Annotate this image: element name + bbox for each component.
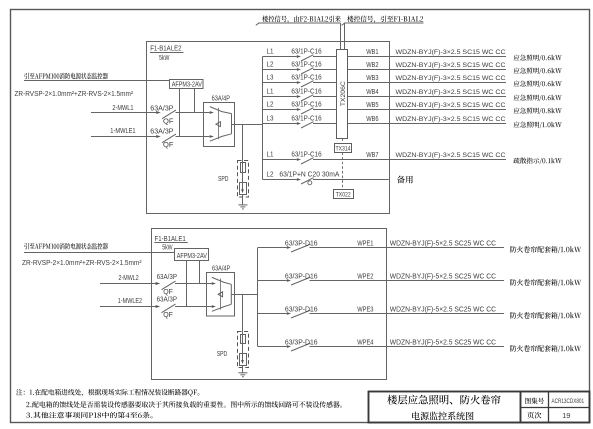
surge arrester (bottom SPD) [240,354,247,366]
wire branch row 2 to terminal [313,69,337,71]
leader underline signal-from [259,22,341,24]
ATS actuator triangle [216,122,221,127]
wire branch row 4 to terminal [313,96,337,98]
label load evacuation indication [514,158,562,165]
svg-text:63/1P-C16: 63/1P-C16 [291,46,321,55]
ATS actuator link [217,108,219,139]
svg-text:WB2: WB2 [366,62,378,69]
svg-text:AFPM3-2AV: AFPM3-2AV [172,82,202,89]
label load fire shutter box 1 [510,246,581,253]
wire monitor link (bottom) [24,252,175,254]
wire incoming 2-MWL1 [91,112,156,114]
wire circuit WB1 [347,56,506,58]
breaker 63/1P-C16 row 4 [301,95,314,101]
breaker 63/1P-C16 row 7 [301,158,314,164]
breaker 63/1P-C16 row 3 [301,81,314,87]
svg-text:WDZN-BYJ(F)-3×2.5 SC15 WC CC: WDZN-BYJ(F)-3×2.5 SC15 WC CC [396,49,506,56]
label load 应急照明/0.6kW [514,55,562,62]
svg-text:AFPM3-2AV: AFPM3-2AV [177,253,207,260]
ATS2 input stub 2 [206,306,212,308]
svg-text:1-MWLE2: 1-MWLE2 [118,296,142,305]
svg-text:63A/4P: 63A/4P [212,94,230,103]
svg-text:WDZN-BYJ(F)-3×2.5 SC15 WC CC: WDZN-BYJ(F)-3×2.5 SC15 WC CC [396,152,506,159]
breaker 63/1P-C16 row 2 [301,68,314,74]
label load fire shutter box 2 [510,279,581,286]
wire monitor link (top) [24,80,170,82]
label load 应急照明/0.6kW [514,81,562,88]
breaker QF 1-MWLE1 63A/3P [162,134,176,143]
label load 应急照明/0.6kW [514,68,562,75]
svg-text:L2: L2 [267,59,274,68]
label to AFPM100 monitor (bottom) [24,243,108,250]
wire AFPM tap to 1-MWLE1 [179,89,181,137]
SPD dashed enclosure (top) [238,161,249,198]
module TX314 [335,144,352,153]
wire circuit WB5 [347,109,506,111]
svg-text:63/1P-C16: 63/1P-C16 [291,72,321,81]
breaker 63/1P-C16 row 5 [301,108,314,114]
svg-text:WB3: WB3 [366,75,378,82]
svg-text:TX022: TX022 [336,191,351,198]
panel enclosure F1-B1ALE1 [152,229,387,380]
label building-control signal to F1-B1AL2 [347,16,423,23]
ground (top SPD) [242,195,244,205]
svg-text:WB4: WB4 [366,89,378,96]
breaker 63/3P-D16 WPE2 [291,277,311,285]
transfer switch U1 63A/4P box [204,103,235,147]
fuse FU (bottom SPD) [242,331,244,353]
wire incoming 1-MWLE1 [91,136,156,138]
sensor AFPM3-2AV (bottom) [175,249,209,261]
ATS2 actuator link [220,279,222,310]
wire branch row 4 left [263,96,297,98]
wire branch WPE4 left [258,346,287,348]
wire branch WPE2 left [258,280,287,282]
svg-text:WPE4: WPE4 [357,339,373,346]
wire spare row 8 [313,179,389,181]
transfer switch U2 63A/4P box [207,273,235,317]
title block divider 2 [548,392,550,423]
wire branch row 1 left [263,56,297,58]
svg-text:WDZN-BYJ(F)-5×2.5 SC25 WC CC: WDZN-BYJ(F)-5×2.5 SC25 WC CC [390,307,496,314]
svg-text:63/3P-D16: 63/3P-D16 [285,304,318,313]
wire circuit WB4 [347,96,506,98]
svg-text:WDZN-BYJ(F)-3×2.5 SC15 WC CC: WDZN-BYJ(F)-3×2.5 SC15 WC CC [396,89,506,96]
svg-text:63/1P-C16: 63/1P-C16 [291,59,321,68]
label load fire shutter box 4 [510,345,581,352]
wire circuit WB3 [347,82,506,84]
wire signal line 2 to TX206C [344,23,346,49]
svg-text:63A/3P: 63A/3P [150,127,173,136]
label load 应急照明/0.8kW [514,108,562,115]
ATS2 input stub 1 [206,283,212,285]
breaker 63/1P-C16 row 1 [301,55,314,61]
wire branch row 5 left [263,109,297,111]
breaker 63/3P-D16 WPE1 [291,244,311,252]
wire AFPM tap to 1-MWLE2 [186,261,188,307]
svg-text:WDZN-BYJ(F)-5×2.5 SC25 WC CC: WDZN-BYJ(F)-5×2.5 SC25 WC CC [390,241,496,248]
title line 2 [412,412,473,421]
svg-text:WB7: WB7 [366,152,378,159]
svg-text:2-MWL1: 2-MWL1 [112,103,133,112]
svg-text:QF: QF [163,140,174,149]
ATS common bar [231,114,233,134]
ATS blade lower [210,134,232,141]
wire AFPM tap to 2-MWL2 [199,261,201,284]
svg-text:QF: QF [163,310,173,319]
svg-text:L2: L2 [267,99,274,108]
svg-text:WPE1: WPE1 [357,240,373,247]
bus vertical (top panel) [262,57,264,180]
wire ATS output (top) [232,124,263,126]
sensor AFPM3-2AV (top) [170,80,204,89]
title block outer [369,392,590,423]
svg-text:63/3P-D16: 63/3P-D16 [285,271,318,280]
label atlas no. [525,398,544,404]
svg-text:5kW: 5kW [162,243,173,252]
wire ATS2 output [231,294,257,296]
svg-text:L1: L1 [267,86,274,95]
breaker QF 1-MWLE2 63A/3P [162,304,176,313]
fuse FU (top SPD) [242,161,244,183]
ATS2 blade upper [212,277,231,284]
wire branch row 3 left [263,82,297,84]
bus vertical (bottom panel) [257,248,259,347]
breaker QF 2-MWL2 63A/3P [162,281,176,290]
svg-text:WB5: WB5 [366,102,378,109]
svg-text:63/1P+N C20 30mA: 63/1P+N C20 30mA [279,169,339,178]
label load 应急照明/1.0kW [514,122,562,129]
wire SPD drop (top) [242,125,244,161]
svg-text:ZR-RVSP-2×1.0mm²+ZR-RVS-2×1.5m: ZR-RVSP-2×1.0mm²+ZR-RVS-2×1.5mm² [22,260,142,267]
label load 应急照明/0.6kW [514,95,562,102]
svg-text:63/1P-C16: 63/1P-C16 [291,99,321,108]
svg-text:63/3P-D16: 63/3P-D16 [285,238,318,247]
ATS input stub 1 [204,112,210,114]
wire circuit WB7 [313,159,506,161]
label TX206C [340,81,347,106]
ground (bottom SPD) [242,366,244,373]
svg-text:ZR-RVSP-2×1.0mm²+ZR-RVS-2×1.5m: ZR-RVSP-2×1.0mm²+ZR-RVS-2×1.5mm² [15,91,134,98]
wire branch row 3 to terminal [313,82,337,84]
ATS2 blade lower [212,304,231,311]
ATS blade upper [210,107,232,114]
dashed link TX206C-TX314 [342,138,344,143]
underline F1-B1ALE2 [150,52,184,54]
svg-text:TX314: TX314 [336,146,351,153]
underline F1-B1ALE1 [154,242,188,244]
ATS input stub 2 [204,136,210,138]
wire signal line 1 to TX206C [340,23,342,49]
title line 1 [387,395,500,405]
label page [527,412,541,419]
breaker 63/1P-C16 row 6 [301,122,314,128]
label load fire shutter box 3 [510,312,581,319]
svg-text:63A/3P: 63A/3P [150,103,173,112]
wire SPD drop (bottom) [242,295,244,332]
breaker QF 2-MWL1 63A/3P [162,110,176,119]
svg-text:WDZN-BYJ(F)-5×2.5 SC25 WC CC: WDZN-BYJ(F)-5×2.5 SC25 WC CC [390,340,496,347]
wire branch row 5 to terminal [313,109,337,111]
wire branch row 6 to terminal [313,123,337,125]
svg-text:L2: L2 [267,169,274,178]
wire branch row 1 to terminal [313,56,337,58]
svg-text:63A/3P: 63A/3P [157,272,177,281]
svg-text:19: 19 [562,411,570,420]
svg-text:L3: L3 [267,72,274,81]
svg-text:WDZN-BYJ(F)-5×2.5 SC25 WC CC: WDZN-BYJ(F)-5×2.5 SC25 WC CC [390,274,496,281]
leader underline signal-to [345,22,424,24]
svg-text:WDZN-BYJ(F)-3×2.5 SC15 WC CC: WDZN-BYJ(F)-3×2.5 SC15 WC CC [396,62,506,69]
breaker RCD 63/1P+N C20 30mA [301,178,314,184]
svg-text:WDZN-BYJ(F)-3×2.5 SC15 WC CC: WDZN-BYJ(F)-3×2.5 SC15 WC CC [396,116,506,123]
svg-text:QF: QF [163,117,174,126]
breaker 63/3P-D16 WPE3 [291,310,311,318]
svg-text:ACR13CDX801: ACR13CDX801 [552,398,585,405]
note line 3 [26,412,152,419]
wire AFPM tap to 2-MWL1 [194,89,196,113]
label spare [397,176,413,184]
svg-text:WPE3: WPE3 [357,306,373,313]
wire branch row 7 left [263,159,297,161]
SPD dashed enclosure (bottom) [238,332,249,368]
title block divider 1 [520,392,522,423]
svg-text:TX206C: TX206C [340,81,347,106]
wire incoming 1-MWLE2 [100,306,156,308]
wire branch WPE3 left [258,313,287,315]
svg-text:63/3P-D16: 63/3P-D16 [285,337,318,346]
surge arrester (top SPD) [240,183,247,195]
svg-text:63/1P-C16: 63/1P-C16 [291,113,321,122]
svg-text:WB6: WB6 [366,116,378,123]
breaker 63/3P-D16 WPE4 [291,343,311,351]
svg-text:SPD: SPD [218,176,229,183]
wire circuit WPE1 [310,247,505,249]
label to AFPM100 monitor (top) [24,73,108,80]
svg-text:L1: L1 [267,46,274,55]
wire circuit WPE3 [310,313,505,315]
svg-text:63A/4P: 63A/4P [212,263,230,272]
label building-control signal from F2-B1AL2 [262,16,341,23]
ATS2 actuator triangle [218,292,223,297]
svg-text:63/1P-C16: 63/1P-C16 [291,86,321,95]
note line 1 [16,389,199,396]
note line 2 [26,401,342,408]
svg-text:2-MWL2: 2-MWL2 [119,273,139,282]
wire circuit WPE4 [310,346,505,348]
svg-text:WPE2: WPE2 [357,273,373,280]
panel enclosure F1-B1ALE2 [147,42,390,214]
svg-text:L1: L1 [267,149,274,158]
ATS2 common bar [230,284,232,304]
wire circuit WB6 [347,123,506,125]
module TX022 [334,190,354,199]
title block divider mid [521,407,590,409]
wire branch WPE1 left [258,247,287,249]
svg-text:63A/3P: 63A/3P [157,295,177,304]
svg-text:1-MWLE1: 1-MWLE1 [110,126,135,135]
wire circuit WPE2 [310,280,505,282]
svg-text:63/1P-C16: 63/1P-C16 [291,149,321,158]
svg-text:5kW: 5kW [159,53,170,62]
wire branch row 2 left [263,69,297,71]
svg-text:L3: L3 [267,113,274,122]
svg-text:WDZN-BYJ(F)-3×2.5 SC15 WC CC: WDZN-BYJ(F)-3×2.5 SC15 WC CC [396,102,506,109]
svg-text:F1-B1ALE2: F1-B1ALE2 [150,44,181,53]
wire branch row 8 left [263,179,297,181]
wire branch row 6 left [263,123,297,125]
svg-text:WB1: WB1 [366,49,378,56]
svg-text:WDZN-BYJ(F)-3×2.5 SC15 WC CC: WDZN-BYJ(F)-3×2.5 SC15 WC CC [396,75,506,82]
wire circuit WB2 [347,69,506,71]
terminal block TX206C [337,50,348,139]
dashed link TX314-TX022 [342,153,344,190]
svg-text:SPD: SPD [217,351,228,358]
wire incoming 2-MWL2 [100,283,156,285]
